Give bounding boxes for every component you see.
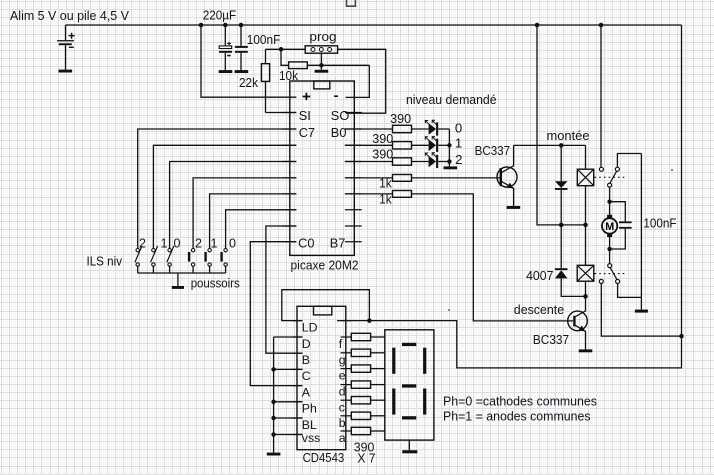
svg-text:100nF: 100nF bbox=[247, 32, 280, 47]
svg-text:LD: LD bbox=[302, 320, 318, 334]
relay coil K2 descente bbox=[577, 225, 594, 297]
wire U2 vss to ground bus bbox=[274, 434, 303, 436]
resistor 390 segment e bbox=[351, 365, 385, 372]
ground (prog) bbox=[315, 65, 329, 72]
wire LED common cathode bbox=[448, 129, 450, 166]
junction LED1 bbox=[447, 143, 452, 148]
junction node rail/C2 bbox=[239, 23, 244, 28]
junction bridge/K1 bbox=[583, 223, 588, 228]
wire switch 1 to picaxe C7 bbox=[138, 129, 297, 248]
LED niveau 0 bbox=[425, 120, 449, 135]
resistor 390 (LED 0) bbox=[345, 125, 429, 132]
IC U1 picaxe 20M2 body bbox=[290, 81, 355, 255]
resistor 1k (descente base) bbox=[345, 191, 573, 321]
ground (C1) bbox=[219, 70, 233, 73]
LED niveau 2 bbox=[425, 153, 449, 168]
svg-text:B: B bbox=[302, 353, 310, 367]
svg-text:4007: 4007 bbox=[526, 268, 553, 283]
wire SPDT right contacts to ground bbox=[640, 154, 642, 310]
wire picaxe C0 to 4543 A bbox=[250, 242, 302, 386]
U1 plus pin mark bbox=[303, 93, 311, 100]
wire +V top rail bbox=[66, 24, 682, 26]
mechanical link K1 bbox=[595, 176, 626, 178]
capacitor C3 100nF (motor) bbox=[610, 202, 632, 249]
svg-text:100nF: 100nF bbox=[643, 215, 676, 230]
stray node dot A bbox=[671, 169, 673, 171]
relay coil K1 montee bbox=[577, 145, 593, 225]
ground (Q2 emitter) bbox=[579, 349, 593, 352]
junction node rail/SPDT1 column bbox=[599, 23, 604, 28]
junction motor top bbox=[607, 199, 612, 204]
push button poussoir 1 bbox=[204, 249, 211, 274]
resistor 390 segment b bbox=[351, 412, 385, 419]
junction bridge/D1 bbox=[559, 223, 564, 228]
U2 right pin stubs bbox=[341, 321, 352, 431]
svg-text:c: c bbox=[339, 400, 345, 414]
svg-text:descente: descente bbox=[514, 302, 564, 317]
wire prog to SO pin bbox=[338, 49, 386, 113]
motor M bbox=[602, 202, 617, 249]
svg-text:d: d bbox=[339, 385, 346, 399]
svg-text:0: 0 bbox=[455, 121, 462, 136]
SPDT contact set 1 (montee) bbox=[599, 25, 641, 202]
svg-text:SO: SO bbox=[331, 108, 350, 123]
svg-text:Alim 5 V ou pile 4,5 V: Alim 5 V ou pile 4,5 V bbox=[10, 8, 129, 23]
IC U2 CD4543 body bbox=[297, 306, 346, 449]
svg-text:Ph=1 = anodes communes: Ph=1 = anodes communes bbox=[443, 409, 591, 424]
svg-text:2: 2 bbox=[139, 237, 146, 251]
junction node rail/K-coil column bbox=[535, 23, 540, 28]
svg-text:C: C bbox=[302, 369, 311, 383]
battery B1 pile 4,5V bbox=[57, 25, 75, 70]
svg-text:C7: C7 bbox=[299, 125, 315, 140]
connector J1 prog bbox=[305, 46, 337, 66]
svg-text:0: 0 bbox=[174, 237, 181, 251]
resistor 390 segment a bbox=[351, 427, 385, 434]
wire switch 4 to picaxe C4 bbox=[193, 178, 296, 249]
wire U2 ground bus bbox=[274, 337, 303, 453]
svg-text:Ph: Ph bbox=[302, 402, 317, 416]
wire U2 BL to ground bus bbox=[274, 417, 303, 419]
capacitor C1 220µF electrolytic bbox=[219, 25, 232, 70]
junction node rail/+pin wire bbox=[199, 23, 204, 28]
svg-text:picaxe 20M2: picaxe 20M2 bbox=[291, 257, 359, 272]
junction bus/BL bbox=[271, 416, 276, 421]
svg-text:1: 1 bbox=[161, 237, 168, 251]
svg-text:2: 2 bbox=[455, 152, 462, 167]
reed switch ILS niv 1 bbox=[151, 246, 158, 273]
U1 minus pin mark bbox=[334, 95, 338, 97]
wire U2 Ph to ground bus bbox=[274, 401, 303, 403]
partial component cut at top edge bbox=[347, 0, 356, 6]
svg-text:1k: 1k bbox=[379, 192, 392, 207]
wire +V right column to 4543 Vdd bbox=[337, 25, 681, 368]
svg-text:b: b bbox=[339, 416, 346, 430]
ground (Q1 emitter) bbox=[507, 206, 521, 209]
svg-text:1k: 1k bbox=[379, 176, 392, 191]
svg-text:poussoirs: poussoirs bbox=[191, 275, 240, 290]
reed switch ILS niv 2 bbox=[135, 246, 142, 273]
wire U2 C to ground bus bbox=[274, 368, 303, 370]
svg-text:390: 390 bbox=[372, 131, 393, 146]
junction K2/Q2 collector bbox=[583, 294, 588, 299]
transistor Q2 BC337 descente bbox=[568, 296, 588, 349]
ground (battery) bbox=[59, 70, 73, 73]
wire switch 2 to picaxe C6 bbox=[153, 145, 296, 248]
svg-text:vss: vss bbox=[302, 431, 320, 445]
svg-text:BC337: BC337 bbox=[533, 332, 569, 347]
wire +V rail to picaxe plus pin bbox=[201, 25, 296, 97]
svg-text:BL: BL bbox=[302, 418, 317, 432]
ground (display common) bbox=[402, 440, 417, 453]
svg-text:e: e bbox=[339, 369, 346, 383]
push button poussoir 2 bbox=[188, 249, 195, 274]
svg-text:B7: B7 bbox=[330, 235, 346, 250]
wire switches common bbox=[138, 272, 226, 274]
U2 left pin stubs bbox=[292, 321, 303, 435]
wire switch 5 to picaxe C3 bbox=[210, 194, 297, 249]
ground (contacts) bbox=[635, 310, 648, 313]
svg-text:niveau demandé: niveau demandé bbox=[406, 92, 497, 107]
svg-text:390: 390 bbox=[372, 147, 393, 162]
wire ground node to picaxe minus pin bbox=[346, 65, 370, 97]
junction collector/diode D1 bbox=[559, 143, 564, 148]
resistor 390 segment g bbox=[351, 349, 385, 356]
junction node rail/C1 bbox=[223, 23, 228, 28]
svg-text:390: 390 bbox=[390, 111, 411, 126]
svg-text:1: 1 bbox=[455, 136, 462, 151]
junction node 10k/prog ground bbox=[319, 63, 324, 68]
svg-text:ILS niv: ILS niv bbox=[87, 254, 123, 269]
resistor 390 (LED 2) bbox=[345, 158, 429, 165]
junction bus/vss bbox=[271, 432, 276, 437]
svg-text:montée: montée bbox=[547, 128, 590, 143]
mechanical link K2 bbox=[595, 273, 626, 275]
svg-text:D: D bbox=[302, 337, 311, 351]
switch position labels 2 1 0 2 1 0 bbox=[139, 237, 236, 251]
svg-text:A: A bbox=[302, 385, 311, 399]
svg-text:g: g bbox=[339, 353, 346, 367]
diode D2 4007 bbox=[555, 225, 586, 297]
ground (U2 bus) bbox=[267, 453, 281, 456]
svg-text:Ph=0 =cathodes communes: Ph=0 =cathodes communes bbox=[443, 394, 597, 409]
push button poussoir 0 bbox=[220, 249, 227, 274]
junction motor bottom bbox=[607, 247, 612, 252]
svg-text:SI: SI bbox=[299, 108, 311, 123]
svg-text:f: f bbox=[339, 337, 343, 351]
7-segment display bbox=[385, 330, 434, 440]
ground (LED common) bbox=[444, 166, 458, 169]
junction bus/C bbox=[271, 367, 276, 372]
reed switch ILS niv 0 bbox=[167, 246, 174, 273]
junction LED2 bbox=[447, 159, 452, 164]
svg-text:0: 0 bbox=[229, 237, 236, 251]
resistor 390 (LED 1) bbox=[345, 142, 429, 149]
resistor R2 10k bbox=[281, 49, 369, 68]
resistor 390 segment d bbox=[351, 381, 385, 388]
svg-text:2: 2 bbox=[195, 237, 202, 251]
resistor R1 22k bbox=[261, 49, 269, 112]
svg-text:X 7: X 7 bbox=[357, 451, 375, 466]
junction +V right column bbox=[679, 334, 684, 339]
LED niveau 1 bbox=[425, 137, 449, 152]
svg-text:B0: B0 bbox=[331, 125, 347, 140]
SPDT contact set 2 (descente) bbox=[599, 249, 681, 336]
ground (C2) bbox=[235, 70, 249, 73]
wire picaxe C1 to 4543 B bbox=[266, 226, 303, 353]
wire switch 6 to picaxe C2 bbox=[226, 210, 297, 249]
resistor 390 segment c bbox=[351, 397, 385, 404]
U1 left pin stubs bbox=[283, 113, 297, 242]
svg-text:C0: C0 bbox=[298, 235, 314, 250]
capacitor C2 100nF bbox=[235, 25, 248, 70]
junction bus/Ph bbox=[271, 400, 276, 405]
svg-text:a: a bbox=[339, 431, 346, 445]
svg-text:1: 1 bbox=[211, 237, 218, 251]
resistor 1k (montee base) bbox=[345, 175, 500, 182]
wire 22k to SI pin bbox=[266, 112, 297, 114]
svg-text:CD4543: CD4543 bbox=[303, 450, 345, 465]
diode D1 (freewheel montee) bbox=[555, 145, 568, 225]
U1 right pin stubs bbox=[345, 113, 362, 242]
svg-text:22k: 22k bbox=[239, 75, 258, 90]
wire switch 3 to picaxe C5 bbox=[170, 162, 297, 249]
wire LD tie-high loop bbox=[282, 290, 370, 321]
junction node serial/10k bbox=[279, 47, 284, 52]
ground (switches common) bbox=[172, 273, 184, 289]
wire serial node to prog bbox=[266, 48, 306, 50]
junction Vdd/LD loop bbox=[367, 318, 372, 323]
wire Q1 collector rail bbox=[514, 144, 586, 146]
svg-text:M: M bbox=[605, 221, 614, 233]
svg-text:prog: prog bbox=[309, 29, 336, 44]
resistor 390 segment f bbox=[351, 333, 385, 340]
stray node dot B bbox=[448, 309, 450, 311]
svg-text:BC337: BC337 bbox=[475, 143, 511, 158]
wire +V column to motor bridge bbox=[537, 25, 586, 225]
svg-text:220µF: 220µF bbox=[203, 8, 237, 23]
transistor Q1 BC337 montee bbox=[497, 145, 517, 206]
